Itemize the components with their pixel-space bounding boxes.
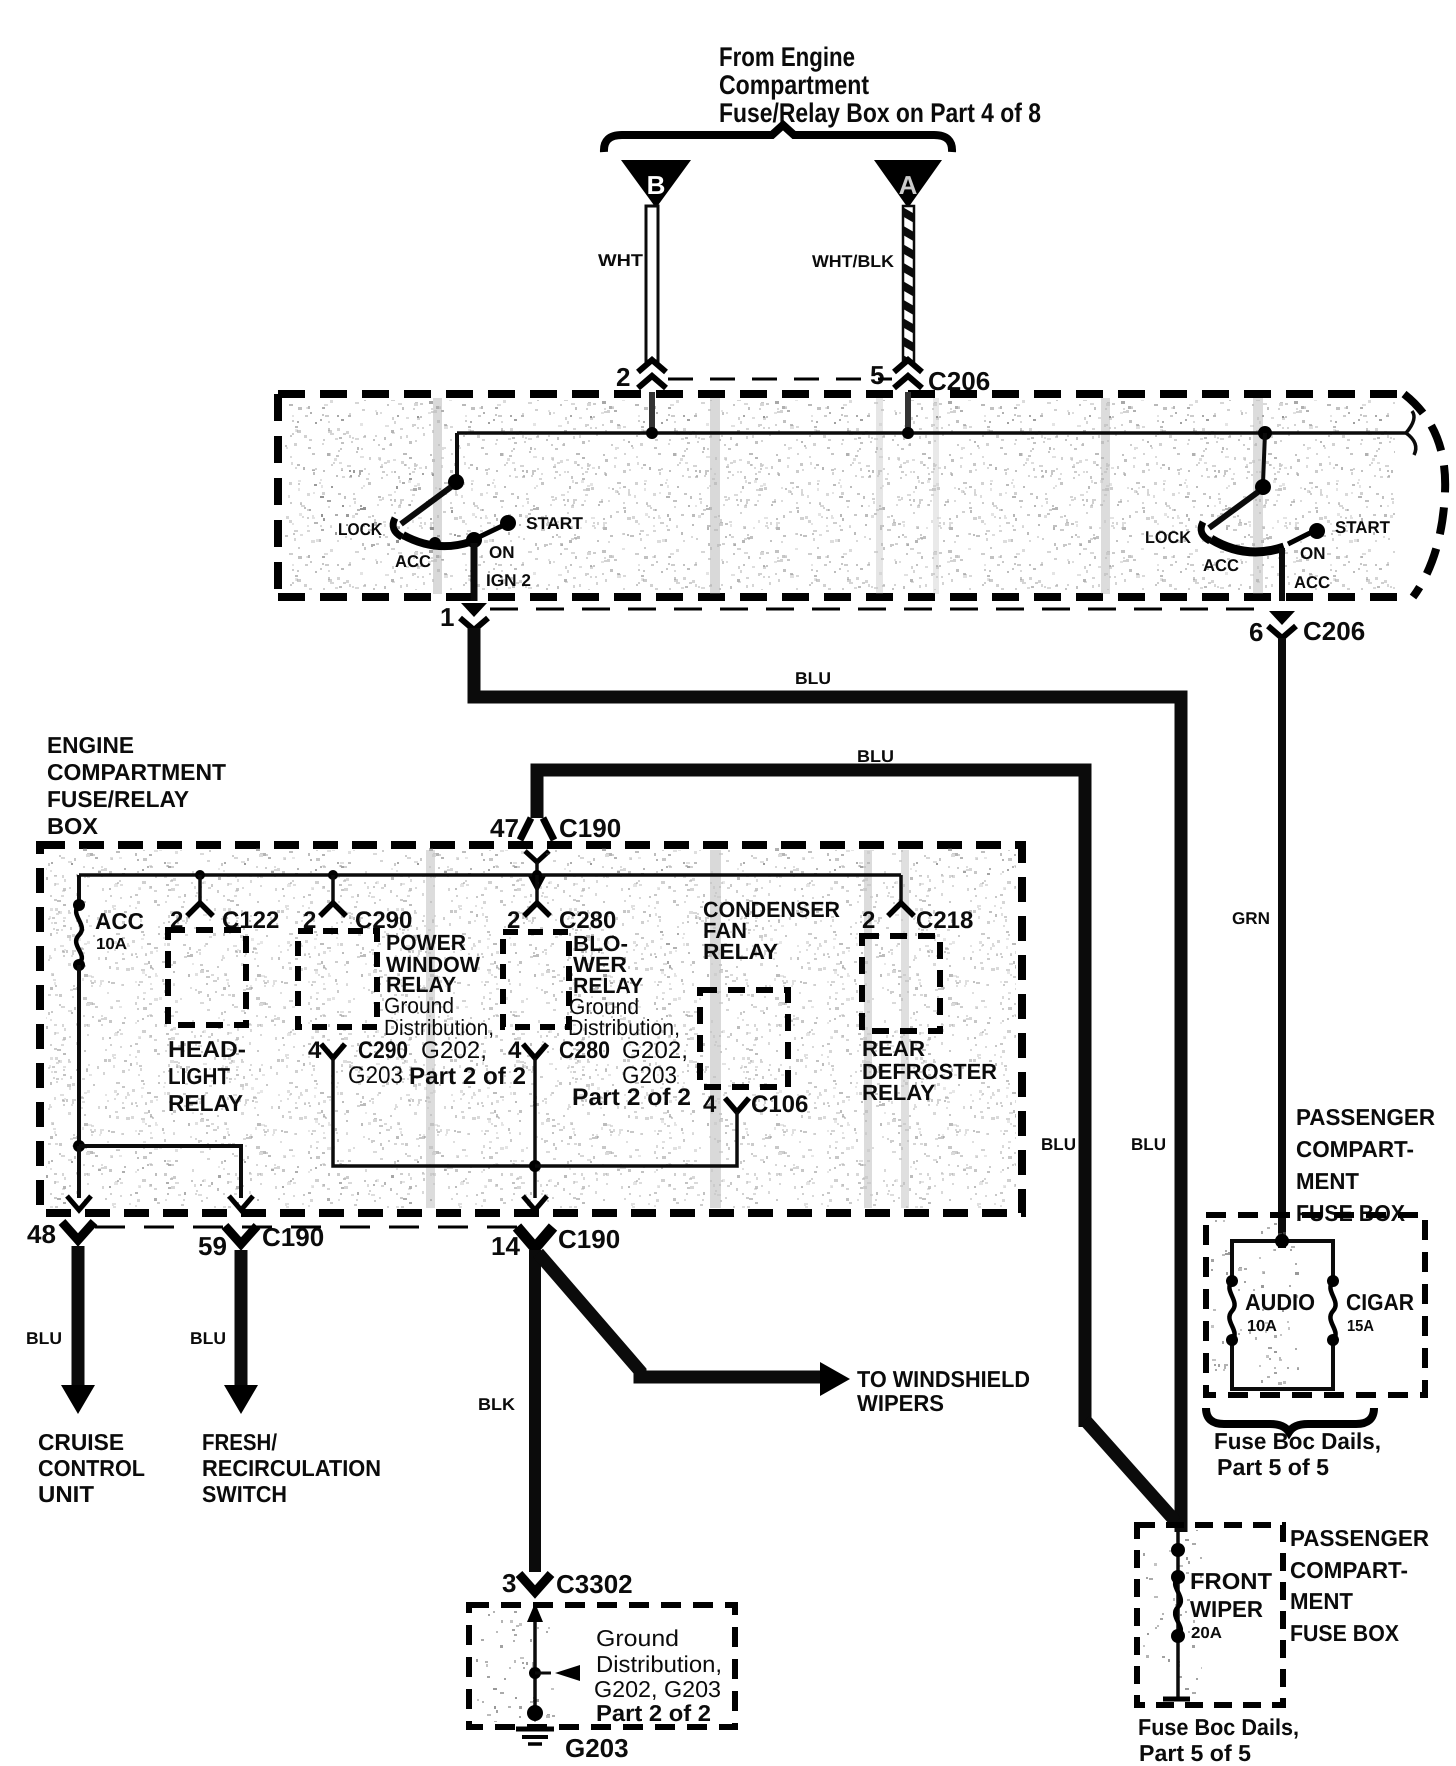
ignition switch box (dashed, torn right edge) [278, 394, 1445, 597]
scan noise in ignition box [285, 398, 1395, 594]
svg-text:Part 5 of 5: Part 5 of 5 [1139, 1740, 1251, 1766]
svg-text:FRESH/: FRESH/ [202, 1429, 278, 1455]
label REAR DEFROSTER RELAY [862, 1036, 997, 1105]
svg-text:47: 47 [490, 813, 519, 843]
ground distribution box (dashed) [469, 1605, 735, 1727]
node GRN entry junction [1275, 1234, 1289, 1248]
ignition switch 1 wiper arc through ACC [403, 535, 470, 546]
svg-text:COMPART-: COMPART- [1290, 1557, 1408, 1583]
relay box REAR DEFROSTER RELAY (dashed) [862, 936, 940, 1031]
label PASSENGER COMPARTMENT FUSE BOX (lower) [1290, 1525, 1429, 1646]
wire BLK down from 14 C190 [529, 1250, 541, 1572]
svg-text:Fuse Boc Dails,: Fuse Boc Dails, [1214, 1428, 1381, 1454]
ignition switch 1 LOCK contact hook [393, 518, 402, 537]
arrow exit 14 at box edge [523, 1196, 547, 1210]
svg-text:Part 2 of 2: Part 2 of 2 [572, 1084, 691, 1111]
svg-text:BOX: BOX [47, 813, 99, 839]
svg-text:Compartment: Compartment [719, 70, 869, 100]
svg-text:LIGHT: LIGHT [168, 1063, 230, 1089]
wire: ignition feed bus [457, 431, 1406, 435]
label BLO-WER RELAY / Ground Distribution [568, 931, 680, 1040]
relay box CONDENSER FAN RELAY (dashed) [700, 990, 788, 1087]
title: From Engine Compartment Fuse/Relay Box on Part 4 of 8 [719, 42, 1041, 128]
svg-text:1: 1 [440, 602, 454, 632]
svg-text:ACC: ACC [1294, 573, 1330, 592]
svg-text:Part 5 of 5: Part 5 of 5 [1217, 1454, 1329, 1480]
ignition switch 1 arm to LOCK [401, 487, 451, 524]
svg-text:START: START [1335, 518, 1391, 537]
wire from C106 down to junction line [535, 1112, 737, 1166]
wire from 4 C290 down and right [333, 1058, 535, 1166]
svg-text:C190: C190 [558, 1224, 620, 1254]
svg-text:HEAD-: HEAD- [168, 1036, 246, 1062]
svg-text:BLU: BLU [795, 669, 831, 688]
svg-text:UNIT: UNIT [38, 1481, 94, 1507]
node junction A [902, 427, 914, 439]
svg-text:Fuse Boc Dails,: Fuse Boc Dails, [1138, 1714, 1299, 1740]
fuse FRONT WIPER 20A [1163, 1530, 1272, 1699]
svg-text:BLU: BLU [1131, 1135, 1166, 1154]
svg-text:48: 48 [27, 1219, 56, 1249]
wire: thin from 47 C190 into box bus [535, 862, 539, 878]
svg-text:Distribution,: Distribution, [596, 1651, 722, 1677]
fuse AUDIO 10A [1226, 1275, 1315, 1346]
svg-text:10A: 10A [96, 936, 127, 953]
svg-text:REAR: REAR [862, 1036, 925, 1061]
wire BLU to fresh/recirculation switch with arrow [190, 1250, 258, 1414]
ignition switch 1 START contact [500, 515, 516, 531]
wire branch to windshield wipers (diagonal + arrow) [538, 1253, 850, 1396]
svg-text:AUDIO: AUDIO [1245, 1289, 1315, 1315]
svg-text:20A: 20A [1191, 1625, 1222, 1642]
label ENGINE COMPARTMENT FUSE/RELAY BOX [47, 732, 226, 839]
fuse ACC 10A [73, 875, 144, 971]
svg-text:C3302: C3302 [556, 1569, 633, 1599]
label Ground Distribution G202 G203 Part 2 of 2 [594, 1625, 722, 1726]
svg-text:Part 2 of 2: Part 2 of 2 [409, 1063, 526, 1090]
connector 2 C122 [170, 870, 279, 934]
connector 2 C280 [507, 870, 616, 934]
svg-text:SWITCH: SWITCH [202, 1481, 287, 1507]
svg-text:G202,: G202, [622, 1037, 688, 1064]
svg-text:4: 4 [308, 1037, 322, 1064]
svg-text:BLU: BLU [1041, 1135, 1076, 1154]
wire from ACC fuse down [77, 965, 81, 1146]
svg-text:LOCK: LOCK [338, 520, 383, 539]
wire WHT/BLK from A (hatched) [903, 206, 914, 361]
svg-text:Fuse/Relay Box on Part 4 of 8: Fuse/Relay Box on Part 4 of 8 [719, 98, 1041, 128]
svg-text:3: 3 [502, 1568, 516, 1598]
svg-text:4: 4 [508, 1037, 522, 1064]
pin 5 C206 connector chevrons [870, 360, 922, 390]
svg-text:FRONT: FRONT [1190, 1568, 1272, 1594]
pin 48 C190 connector [27, 1219, 94, 1249]
ignition switch 2 LOCK contact hook [1201, 522, 1210, 541]
ignition switch 1 (left): riser and pivot [455, 433, 459, 478]
ignition switch 2 (right): junction on bus [1258, 426, 1272, 440]
relay box HEADLIGHT RELAY (dashed) [168, 930, 246, 1025]
passenger compartment fuse box (dashed, upper) [1206, 1215, 1425, 1395]
brace under upper fuse box [1206, 1408, 1374, 1432]
svg-text:14: 14 [491, 1231, 520, 1261]
svg-text:From Engine: From Engine [719, 42, 855, 72]
node junction at 1166 [529, 1160, 541, 1172]
label CRUISE CONTROL UNIT [38, 1429, 145, 1507]
brace over connectors A and B [604, 125, 952, 152]
relay box POWER WINDOW RELAY (dashed) [298, 931, 377, 1027]
svg-text:WIPERS: WIPERS [857, 1390, 944, 1416]
pin 2 C206 connector chevrons [616, 360, 666, 392]
node junction B [646, 427, 658, 439]
svg-text:C280: C280 [559, 1037, 610, 1064]
pin 59 C190 connector [198, 1222, 324, 1261]
pin 1 C206 connector [440, 602, 488, 632]
svg-text:RELAY: RELAY [168, 1090, 243, 1116]
wire ACC main to 48 exit [77, 1146, 81, 1198]
wire: engine box feed bus [79, 873, 901, 877]
wire into ground box with up arrow [527, 1603, 580, 1712]
svg-text:BLU: BLU [26, 1329, 62, 1348]
svg-text:2: 2 [616, 362, 630, 392]
wire from 4 C280 down to 14 exit [533, 1058, 537, 1198]
svg-text:ACC: ACC [1203, 556, 1239, 575]
svg-text:B: B [647, 170, 666, 200]
wire BLU diagonal merge [1085, 1420, 1176, 1522]
connector triangle B [621, 160, 691, 208]
label Fuse Boc Dails, Part 5 of 5 (lower) [1138, 1714, 1299, 1766]
svg-text:ACC: ACC [95, 908, 144, 934]
inner circuit rectangle [1232, 1241, 1333, 1389]
svg-text:CONTROL: CONTROL [38, 1455, 145, 1481]
svg-text:C106: C106 [751, 1091, 808, 1118]
wire branch to 59 exit [79, 1146, 241, 1198]
node ACC branch junction [73, 1140, 85, 1152]
svg-text:Ground: Ground [596, 1625, 679, 1651]
ignition switch 1 ACC contact [429, 537, 441, 549]
svg-text:G203: G203 [565, 1733, 629, 1763]
svg-text:WIPER: WIPER [1190, 1596, 1263, 1622]
pin 6 C206 connector [1249, 611, 1296, 647]
svg-text:C190: C190 [559, 813, 621, 843]
svg-text:START: START [526, 514, 584, 533]
svg-text:CRUISE: CRUISE [38, 1429, 124, 1455]
svg-text:CIGAR: CIGAR [1346, 1289, 1414, 1315]
svg-text:ENGINE: ENGINE [47, 732, 134, 758]
wire BLU from pin1 to front wiper fuse (thick L) [474, 628, 1181, 1532]
svg-text:G202,: G202, [421, 1037, 487, 1064]
connector 4 C106 (below relay) [703, 1091, 808, 1118]
pin 3 C3302 connector [502, 1568, 633, 1599]
svg-text:LOCK: LOCK [1145, 528, 1192, 547]
connector 2 C290 [303, 870, 412, 934]
relay box BLOWER RELAY (dashed) [503, 932, 569, 1027]
svg-text:5: 5 [870, 360, 884, 390]
svg-text:TO WINDSHIELD: TO WINDSHIELD [857, 1366, 1030, 1392]
svg-text:BLU: BLU [857, 747, 894, 766]
svg-text:BLU: BLU [190, 1329, 226, 1348]
svg-text:RELAY: RELAY [703, 939, 778, 964]
svg-text:MENT: MENT [1290, 1588, 1353, 1614]
pin 47 C190 connector [490, 813, 621, 893]
svg-text:ON: ON [489, 543, 515, 562]
connector 4 C290 (below relay) [308, 1037, 526, 1090]
svg-text:BLK: BLK [478, 1395, 516, 1414]
wire: riser B into bus [649, 392, 655, 433]
svg-text:59: 59 [198, 1231, 227, 1261]
svg-text:2: 2 [862, 907, 875, 934]
svg-text:C290: C290 [358, 1037, 408, 1064]
connector 4 C280 (below relay) [508, 1037, 691, 1111]
wire: ACC output down from switch 2 [1279, 548, 1285, 601]
svg-text:C206: C206 [1303, 616, 1365, 646]
wire: riser A into bus [905, 392, 911, 433]
label POWER WINDOW RELAY / Ground Distribution [384, 930, 494, 1040]
svg-text:PASSENGER: PASSENGER [1296, 1104, 1435, 1130]
label Fuse Boc Dails, Part 5 of 5 (upper) [1214, 1428, 1381, 1480]
wire BLU branch to 47 C190 (thick L) [537, 770, 1085, 1427]
svg-text:COMPARTMENT: COMPARTMENT [47, 759, 226, 785]
svg-text:COMPART-: COMPART- [1296, 1136, 1414, 1162]
svg-text:Part 2 of 2: Part 2 of 2 [596, 1700, 711, 1726]
connector triangle A [874, 160, 942, 208]
ignition switch 1 ON contact [466, 532, 482, 548]
svg-text:A: A [899, 170, 918, 200]
label TO WINDSHIELD WIPERS [857, 1366, 1030, 1416]
svg-text:FUSE/RELAY: FUSE/RELAY [47, 786, 189, 812]
svg-text:MENT: MENT [1296, 1168, 1359, 1194]
ground symbol G203 [516, 1705, 629, 1763]
pin 14 C190 connector [491, 1224, 620, 1261]
svg-text:WHT/BLK: WHT/BLK [812, 252, 895, 271]
svg-text:6: 6 [1249, 617, 1263, 647]
scan noise in engine box [46, 848, 1016, 1208]
svg-text:WHT: WHT [598, 251, 644, 270]
svg-text:IGN 2: IGN 2 [486, 571, 531, 590]
svg-text:GRN: GRN [1232, 909, 1270, 928]
passenger compartment fuse box (dashed, lower / front wiper) [1137, 1525, 1283, 1705]
node bus/47 junction [532, 870, 542, 880]
arrow exit 48 at box edge [67, 1196, 91, 1210]
svg-text:10A: 10A [1247, 1318, 1277, 1335]
svg-text:C190: C190 [262, 1222, 324, 1252]
connector C206 dashed link line (bottom) [490, 608, 1266, 611]
svg-text:ON: ON [1300, 544, 1326, 563]
label HEAD-LIGHT RELAY [168, 1036, 246, 1116]
svg-text:G202, G203: G202, G203 [594, 1676, 721, 1702]
fuse CIGAR 15A [1327, 1275, 1414, 1346]
svg-text:4: 4 [703, 1091, 717, 1118]
svg-text:FUSE BOX: FUSE BOX [1290, 1620, 1400, 1646]
ignition switch 2 arm to LOCK [1209, 492, 1258, 528]
svg-text:C218: C218 [916, 907, 973, 934]
arrow exit 59 at box edge [229, 1196, 253, 1210]
svg-text:PASSENGER: PASSENGER [1290, 1525, 1429, 1551]
label CONDENSER FAN RELAY [703, 897, 840, 964]
svg-text:G203: G203 [348, 1062, 403, 1089]
svg-text:ACC: ACC [395, 552, 431, 571]
wire GRN from pin 6 to passenger fuse box [1278, 638, 1286, 1248]
svg-text:RECIRCULATION: RECIRCULATION [202, 1455, 381, 1481]
ignition switch 2 wiper arc through ACC to ON [1211, 539, 1284, 552]
svg-text:15A: 15A [1347, 1318, 1374, 1335]
wire: IGN2 output down from switch 1 [471, 543, 478, 601]
engine compartment fuse/relay box (dashed) [40, 845, 1022, 1213]
label FRESH/RECIRCULATION SWITCH [202, 1429, 381, 1507]
wire BLU to cruise control unit with arrow [26, 1246, 95, 1414]
label PASSENGER COMPARTMENT FUSE BOX (upper) [1296, 1104, 1435, 1226]
ignition switch 2 START contact [1309, 523, 1325, 539]
wire: riser to switch 2 pivot [1263, 433, 1265, 483]
connector C190 dashed link line (bottom exits) [95, 1226, 518, 1229]
connector C206 dashed link line (top) [668, 378, 892, 381]
connector 2 C218 [862, 875, 973, 934]
svg-text:RELAY: RELAY [862, 1080, 935, 1105]
wire WHT from B (double line) [646, 206, 658, 361]
